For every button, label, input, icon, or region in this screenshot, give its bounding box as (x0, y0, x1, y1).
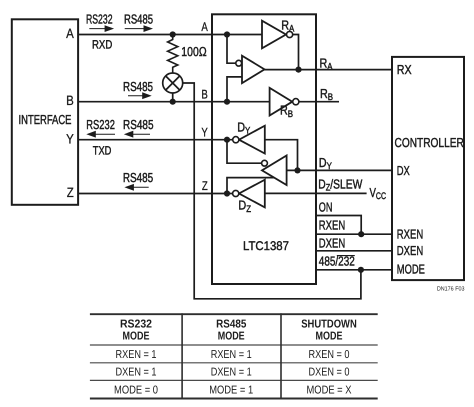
interface box (12, 19, 78, 205)
svg-text:DY: DY (237, 119, 251, 136)
wire net DXEN (316, 250, 392, 252)
svg-text:A: A (201, 20, 208, 34)
junction 485/232 node (358, 267, 364, 273)
wire net RA (265, 69, 393, 71)
svg-text:MODE = 1: MODE = 1 (209, 385, 253, 397)
svg-text:RXEN = 0: RXEN = 0 (308, 349, 349, 361)
svg-text:100Ω: 100Ω (181, 44, 207, 59)
wire net 485/232 (316, 269, 392, 271)
arrow RS232 left (Y) (86, 131, 115, 138)
svg-text:RS232: RS232 (120, 319, 152, 331)
svg-text:RX: RX (397, 62, 412, 77)
svg-text:INTERFACE: INTERFACE (19, 112, 72, 127)
svg-text:SHUTDOWN: SHUTDOWN (301, 319, 357, 331)
wire net DY (287, 169, 392, 171)
wire RS485 receiver inverting input from node A (227, 35, 236, 64)
driver U1e RS485 (DY to Y,Z) (262, 156, 287, 186)
junction B chip (224, 99, 230, 105)
wire net ON (316, 216, 361, 235)
wire DY driver input (265, 140, 298, 171)
wire net A (78, 34, 262, 36)
junction Y node (224, 137, 230, 143)
svg-text:RXD: RXD (92, 37, 113, 51)
svg-text:RXEN: RXEN (319, 218, 345, 233)
junction Z node (224, 190, 230, 196)
svg-text:B: B (201, 87, 207, 101)
resistor R1 100ohm (168, 35, 178, 74)
svg-text:TXD: TXD (93, 143, 112, 157)
svg-text:RXEN = 1: RXEN = 1 (211, 349, 252, 361)
wire net RB stub (299, 101, 339, 103)
svg-text:RA: RA (281, 17, 295, 34)
svg-text:DN176 F03: DN176 F03 (437, 286, 465, 293)
svg-text:DXEN: DXEN (319, 235, 345, 250)
driver U1d RS232 (DY to Y) (233, 126, 265, 154)
switch SW1 termination (163, 73, 183, 102)
svg-text:DX: DX (397, 163, 410, 178)
svg-text:RXEN: RXEN (397, 227, 423, 242)
svg-text:DXEN = 1: DXEN = 1 (115, 367, 156, 379)
svg-text:RS232: RS232 (86, 12, 113, 27)
svg-text:RS485: RS485 (124, 12, 153, 27)
svg-text:MODE = 0: MODE = 0 (114, 385, 158, 397)
junction ON-RXEN (358, 231, 364, 237)
chip box LTC1387 (212, 14, 316, 284)
wire net B (78, 101, 270, 103)
svg-text:Y: Y (201, 125, 208, 139)
svg-text:Y: Y (66, 131, 74, 146)
junction A chip (224, 31, 230, 37)
svg-text:Z: Z (67, 185, 74, 200)
wire net RXEN (316, 233, 392, 235)
wire RS485 receiver input from node B (227, 77, 242, 102)
svg-text:RS485: RS485 (123, 117, 153, 132)
receiver U1a RS232 (A to RA) (262, 21, 293, 49)
svg-text:Z: Z (202, 179, 208, 193)
receiver U1c RS232 (B to RB) (270, 88, 299, 116)
svg-text:LTC1387: LTC1387 (243, 239, 289, 253)
junction B-switch (170, 99, 176, 105)
svg-text:DXEN = 0: DXEN = 0 (308, 367, 349, 379)
svg-text:MODE: MODE (218, 330, 245, 342)
arrow RS232 right (A) (89, 25, 114, 32)
svg-text:DZ/SLEW: DZ/SLEW (318, 177, 363, 194)
wire net Z (78, 193, 232, 195)
svg-text:DXEN: DXEN (397, 243, 423, 258)
svg-text:RB: RB (320, 86, 333, 103)
svg-text:CONTROLLER: CONTROLLER (395, 135, 464, 150)
receiver U1b RS485 (A,B to RA) (236, 56, 265, 83)
arrow RS485 left (Z) (124, 184, 148, 191)
svg-text:MODE: MODE (123, 330, 150, 342)
wire RS485 driver inverted output to node Y (227, 140, 262, 164)
svg-text:B: B (66, 93, 74, 108)
junction A-resistor (170, 31, 176, 37)
svg-text:ON: ON (319, 199, 333, 214)
table rules (90, 313, 378, 399)
wire R1 output to RA node (293, 35, 299, 70)
svg-text:RS485: RS485 (123, 170, 153, 185)
svg-text:DZ: DZ (238, 198, 251, 215)
svg-text:RS232: RS232 (86, 117, 115, 132)
arrow RS485 right (B) (128, 92, 152, 99)
junction RA node (295, 67, 301, 73)
svg-text:DY: DY (319, 155, 333, 172)
svg-text:RA: RA (320, 55, 334, 72)
svg-text:RXEN = 1: RXEN = 1 (115, 349, 156, 361)
svg-text:MODE = X: MODE = X (307, 385, 352, 397)
svg-text:RS485: RS485 (123, 79, 153, 94)
wire net Y (78, 139, 233, 141)
wire net DZ/SLEW (265, 192, 367, 194)
svg-text:VCC: VCC (370, 185, 387, 202)
svg-text:RB: RB (280, 103, 293, 120)
arrow RS485 left (Y) (124, 131, 150, 138)
arrow RS485 right (A) (125, 25, 153, 32)
controller box (392, 57, 464, 280)
wire RS485 driver output to node Z (227, 178, 275, 194)
driver U1f RS232 (DZ to Z) (233, 180, 265, 208)
svg-text:MODE: MODE (316, 330, 343, 342)
svg-text:DXEN = 1: DXEN = 1 (211, 367, 252, 379)
svg-text:A: A (66, 26, 74, 41)
svg-text:RS485: RS485 (216, 319, 247, 331)
svg-text:MODE: MODE (397, 261, 425, 276)
wire 485/232 control to switch SW1 (183, 83, 361, 299)
junction DY node (294, 167, 300, 173)
overline 232 (337, 255, 355, 257)
